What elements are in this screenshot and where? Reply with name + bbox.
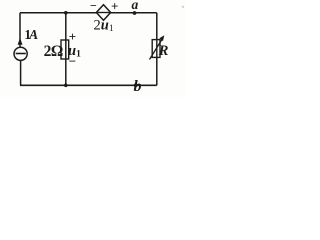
resistor R arrow xyxy=(150,39,163,60)
node b dot xyxy=(134,83,138,87)
controlled source U inner line xyxy=(96,12,110,14)
wire right xyxy=(156,13,158,86)
svg-text:1A: 1A xyxy=(24,27,38,42)
current source I1 circle xyxy=(14,47,27,60)
resistor R box xyxy=(152,40,160,58)
wire middle branch xyxy=(65,13,67,86)
svg-text:b: b xyxy=(134,78,142,95)
current source I1 arrow xyxy=(18,38,23,45)
svg-text:2u1: 2u1 xyxy=(94,18,114,35)
resistor R wire through xyxy=(156,40,158,58)
svg-text:+: + xyxy=(111,0,118,13)
svg-text:a: a xyxy=(132,0,139,12)
controlled source U diamond xyxy=(96,5,110,21)
wire top xyxy=(20,12,157,14)
svg-text:R: R xyxy=(158,43,169,59)
wire left xyxy=(19,13,22,86)
wire bottom xyxy=(20,84,157,86)
scan speck xyxy=(182,6,184,8)
svg-text:−: − xyxy=(90,0,97,13)
junction dot bottom middle xyxy=(64,84,68,88)
current source I1 bar xyxy=(16,53,26,55)
node a dot xyxy=(133,11,137,15)
svg-text:+: + xyxy=(69,29,76,44)
resistor 2ohm box xyxy=(61,40,69,59)
junction dot top middle xyxy=(64,11,68,15)
svg-text:−: − xyxy=(69,54,76,69)
svg-text:2Ω: 2Ω xyxy=(44,43,63,60)
